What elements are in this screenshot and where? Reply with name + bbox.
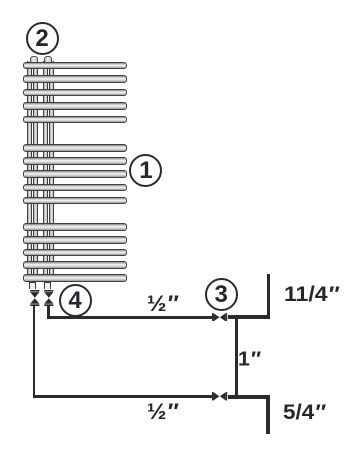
rung 7 [23, 157, 127, 165]
pipe: 11/4" riser up [266, 274, 270, 319]
rung 11 [23, 223, 127, 231]
tube top cap left [30, 56, 38, 64]
rung 15 [23, 274, 127, 282]
pipe: bottom horizontal thick (to 5/4" drop) [228, 395, 271, 399]
label 5/4" [283, 400, 325, 425]
label 1/2" bottom pipe [146, 399, 177, 425]
valve 3 on top pipe (horizontal bowtie) [212, 313, 227, 322]
label 1" [238, 347, 260, 371]
label 11/4" [284, 282, 339, 307]
callout circle 1 [129, 154, 162, 187]
pipe: top horizontal thin (1/2") [47, 316, 212, 319]
valve on bottom pipe (horizontal bowtie) [212, 392, 227, 401]
rung 9 [23, 183, 127, 191]
rung 4 [23, 102, 127, 110]
radiator tube pair 2, tube 1 [43, 61, 49, 282]
callout circle 4 [58, 284, 91, 317]
tube bottom cup right [44, 282, 51, 289]
radiator valve left (vertical bowtie) [30, 290, 40, 307]
rung 5 [23, 116, 127, 124]
pipe: top horizontal thick (to 11/4" riser) [228, 315, 271, 319]
pipe: left riser down from left valve [33, 306, 35, 398]
rung 14 [23, 261, 127, 269]
pipe: bottom horizontal thin (1/2") [33, 395, 212, 398]
tube top cap right [44, 56, 52, 64]
radiator tube pair 1, tube 2 [33, 61, 39, 282]
rung 2 [23, 75, 127, 83]
rung 1 [23, 62, 127, 70]
rung 10 [23, 197, 127, 205]
rung 13 [23, 249, 127, 257]
radiator tube pair 2, tube 2 [48, 61, 54, 282]
pipe: 1" connector riser [235, 319, 237, 396]
radiator valve right (vertical bowtie) [44, 290, 54, 307]
rung 8 [23, 170, 127, 178]
pipe: 5/4" drop down [266, 395, 270, 434]
rung 12 [23, 236, 127, 244]
pipe: right riser down from right valve [47, 306, 49, 319]
callout circle 2 [26, 22, 59, 55]
rung 6 [23, 144, 127, 152]
callout circle 3 [205, 278, 238, 311]
label 1/2" top pipe [147, 291, 178, 317]
tube bottom cup left [29, 282, 36, 289]
radiator tube pair 1, tube 1 [27, 61, 33, 282]
rung 3 [23, 89, 127, 97]
